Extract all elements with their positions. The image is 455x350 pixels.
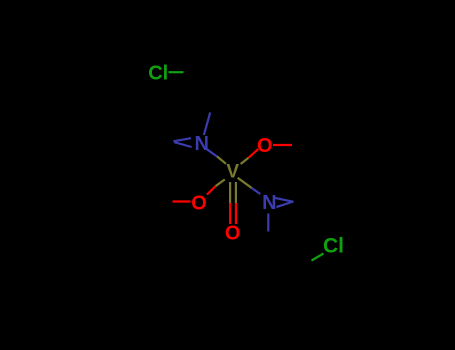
- svg-text:V: V: [226, 161, 239, 182]
- svg-text:O: O: [225, 223, 241, 245]
- svg-text:N: N: [262, 192, 276, 214]
- svg-text:O: O: [257, 135, 273, 157]
- svg-text:Cl: Cl: [323, 235, 344, 258]
- svg-text:Cl: Cl: [148, 63, 168, 85]
- svg-text:O: O: [191, 192, 207, 214]
- svg-text:N: N: [194, 133, 208, 155]
